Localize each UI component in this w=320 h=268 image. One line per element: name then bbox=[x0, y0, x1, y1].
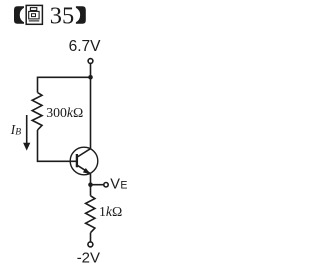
wire: emitter down bbox=[90, 174, 92, 196]
wire: supply down to collector bbox=[90, 63, 92, 148]
current arrow IB bbox=[26, 115, 28, 144]
title right bracket 】 bbox=[76, 6, 86, 24]
wire: left branch down to resistor bbox=[37, 77, 39, 93]
svg-text:6.7V: 6.7V bbox=[69, 38, 102, 55]
-2V terminal circle bbox=[88, 242, 93, 247]
svg-text:300kΩ: 300kΩ bbox=[46, 105, 83, 120]
wire: resistor bottom to base bbox=[38, 130, 77, 161]
svg-text:V: V bbox=[110, 176, 120, 192]
transistor Q1 circle bbox=[70, 147, 98, 175]
svg-text:35: 35 bbox=[50, 3, 74, 30]
wire: top horizontal bbox=[38, 76, 91, 78]
svg-text:1kΩ: 1kΩ bbox=[99, 204, 122, 219]
title left bracket 【 bbox=[14, 6, 24, 24]
svg-text:-2V: -2V bbox=[77, 249, 100, 266]
wire: to VE terminal bbox=[91, 184, 104, 186]
title character 圖 bbox=[26, 5, 42, 24]
resistor RB 300k zigzag bbox=[32, 93, 42, 131]
wire: resistor to -2V terminal bbox=[90, 233, 92, 242]
supply terminal circle (6.7V) bbox=[88, 59, 93, 64]
VE terminal circle bbox=[104, 183, 108, 187]
node junction dot (top) bbox=[88, 75, 93, 80]
resistor RE 1k zigzag bbox=[86, 196, 95, 233]
transistor emitter diagonal with arrow bbox=[78, 165, 91, 173]
transistor base bar bbox=[76, 154, 78, 167]
svg-text:E: E bbox=[120, 180, 127, 192]
node junction dot VE bbox=[88, 182, 93, 187]
transistor collector diagonal bbox=[77, 149, 90, 157]
